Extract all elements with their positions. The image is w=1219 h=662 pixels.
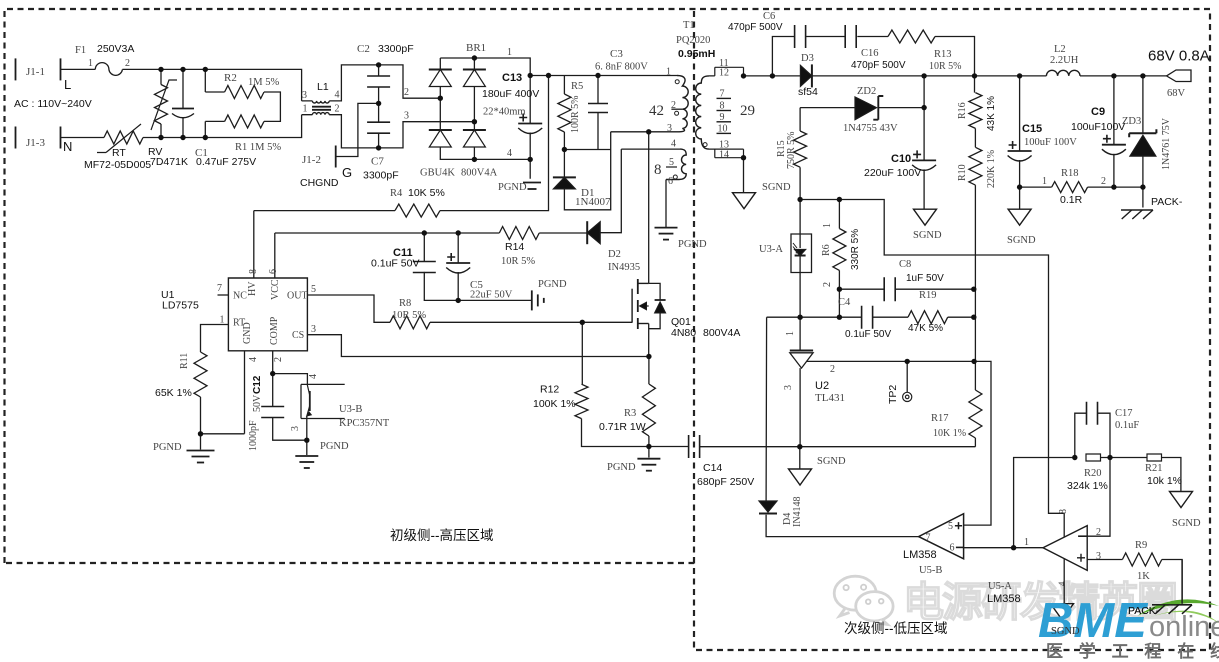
svg-text:2: 2 (830, 364, 835, 375)
svg-text:4: 4 (335, 90, 340, 101)
svg-text:GBU4K: GBU4K (420, 168, 455, 179)
svg-text:BR1: BR1 (466, 42, 486, 54)
svg-text:6: 6 (950, 543, 955, 554)
svg-text:22uF 50V: 22uF 50V (470, 290, 513, 301)
svg-text:7: 7 (926, 533, 931, 544)
svg-text:L2: L2 (1054, 44, 1066, 55)
svg-text:42: 42 (649, 103, 664, 119)
svg-text:2: 2 (404, 87, 409, 98)
svg-text:D3: D3 (801, 53, 814, 64)
svg-text:2: 2 (1096, 527, 1101, 538)
svg-text:C2: C2 (357, 43, 370, 55)
svg-text:7: 7 (217, 283, 222, 294)
svg-text:G: G (342, 165, 352, 180)
svg-text:R19: R19 (919, 290, 937, 301)
svg-text:U3-B: U3-B (339, 404, 362, 415)
svg-text:C6: C6 (763, 11, 775, 22)
svg-text:7: 7 (720, 88, 725, 99)
svg-text:1N4761 75V: 1N4761 75V (1161, 117, 1172, 170)
svg-text:C13: C13 (502, 72, 522, 84)
svg-text:2: 2 (273, 357, 284, 362)
svg-text:SGND: SGND (762, 182, 791, 193)
svg-text:R16: R16 (957, 102, 968, 119)
svg-text:1: 1 (507, 47, 512, 58)
svg-text:3300pF: 3300pF (378, 43, 414, 55)
svg-text:100uF 100V: 100uF 100V (1024, 137, 1077, 148)
svg-text:8: 8 (654, 162, 662, 178)
svg-text:sf54: sf54 (798, 86, 818, 98)
svg-text:R1 1M 5%: R1 1M 5% (235, 142, 281, 153)
svg-text:680pF 250V: 680pF 250V (697, 476, 754, 488)
svg-text:PQ2020: PQ2020 (676, 35, 710, 46)
svg-text:8: 8 (1058, 509, 1069, 514)
svg-text:IN4935: IN4935 (608, 262, 640, 273)
svg-text:4: 4 (248, 357, 259, 362)
svg-text:KPC357NT: KPC357NT (339, 418, 390, 429)
svg-text:3: 3 (1096, 551, 1101, 562)
svg-text:OUT: OUT (287, 291, 308, 302)
svg-text:1: 1 (785, 331, 796, 336)
svg-text:10: 10 (718, 123, 728, 134)
svg-text:HV: HV (247, 281, 258, 296)
svg-text:1N4007: 1N4007 (575, 196, 611, 208)
svg-text:4: 4 (1057, 581, 1067, 586)
svg-text:9: 9 (720, 112, 725, 123)
svg-text:1: 1 (822, 223, 833, 228)
svg-text:10k 1%: 10k 1% (1147, 475, 1182, 487)
svg-text:1uF 50V: 1uF 50V (906, 273, 944, 284)
svg-text:R18: R18 (1061, 168, 1079, 179)
svg-text:CS: CS (292, 330, 304, 341)
svg-text:4: 4 (507, 148, 512, 159)
svg-text:SGND: SGND (1051, 626, 1080, 637)
svg-text:330R 5%: 330R 5% (850, 229, 861, 270)
svg-text:6: 6 (268, 269, 279, 274)
svg-text:N: N (63, 139, 72, 154)
svg-text:C12: C12 (252, 375, 263, 394)
svg-text:U5-A: U5-A (988, 581, 1012, 592)
svg-text:1: 1 (303, 104, 308, 115)
svg-text:R13: R13 (934, 49, 952, 60)
svg-text:50V: 50V (252, 394, 263, 412)
svg-text:C8: C8 (899, 259, 911, 270)
svg-text:3: 3 (783, 385, 794, 390)
svg-text:324k 1%: 324k 1% (1067, 480, 1108, 492)
svg-text:1: 1 (1042, 176, 1047, 187)
svg-text:3: 3 (290, 426, 301, 431)
svg-text:68V: 68V (1167, 88, 1186, 99)
svg-text:1N4755 43V: 1N4755 43V (843, 123, 898, 134)
svg-text:10R 5%: 10R 5% (929, 61, 962, 72)
svg-text:R12: R12 (540, 384, 559, 396)
svg-text:U2: U2 (815, 380, 829, 392)
svg-text:2: 2 (822, 282, 833, 287)
svg-text:C16: C16 (861, 48, 879, 59)
svg-text:SGND: SGND (817, 456, 846, 467)
svg-text:D2: D2 (608, 249, 621, 260)
svg-text:10K 5%: 10K 5% (408, 187, 445, 199)
svg-text:1: 1 (220, 315, 225, 326)
svg-text:R10: R10 (957, 164, 968, 181)
svg-text:SGND: SGND (1007, 235, 1036, 246)
svg-text:GND: GND (242, 322, 253, 344)
svg-text:IN4148: IN4148 (792, 496, 803, 527)
svg-text:7D471K: 7D471K (150, 156, 188, 168)
svg-text:PGND: PGND (153, 442, 182, 453)
svg-text:4: 4 (671, 139, 676, 150)
svg-text:1000pF: 1000pF (248, 420, 259, 451)
svg-text:0.1R: 0.1R (1060, 194, 1083, 206)
svg-text:U3-A: U3-A (759, 244, 783, 255)
svg-text:C4: C4 (838, 297, 851, 308)
svg-text:R3: R3 (624, 408, 636, 419)
svg-text:初级侧--高压区域: 初级侧--高压区域 (390, 527, 494, 543)
svg-text:C10: C10 (891, 153, 911, 165)
svg-text:10K 1%: 10K 1% (933, 428, 966, 439)
svg-text:R14: R14 (505, 241, 524, 253)
svg-text:F1: F1 (75, 45, 86, 56)
svg-text:RT: RT (112, 147, 126, 159)
svg-text:470pF 500V: 470pF 500V (851, 60, 906, 71)
svg-text:22*40mm: 22*40mm (483, 107, 526, 118)
svg-text:0.1uF 50V: 0.1uF 50V (845, 329, 891, 340)
svg-text:MF72-05D005: MF72-05D005 (84, 159, 151, 171)
svg-text:SGND: SGND (913, 230, 942, 241)
svg-text:750R 5%: 750R 5% (786, 132, 797, 170)
svg-text:65K 1%: 65K 1% (155, 387, 192, 399)
svg-text:8: 8 (720, 101, 725, 112)
svg-text:NC: NC (233, 291, 247, 302)
svg-text:PACK-: PACK- (1151, 196, 1183, 208)
svg-text:800V4A: 800V4A (703, 327, 740, 339)
svg-text:R17: R17 (931, 413, 949, 424)
svg-text:4: 4 (308, 374, 319, 379)
svg-text:BME: BME (1038, 594, 1148, 648)
svg-text:R9: R9 (1135, 540, 1147, 551)
svg-text:1: 1 (666, 67, 671, 78)
svg-text:0.1uF: 0.1uF (1115, 420, 1139, 431)
svg-text:47K 5%: 47K 5% (908, 323, 943, 334)
svg-text:T1: T1 (683, 20, 695, 31)
svg-text:470pF 500V: 470pF 500V (728, 22, 783, 33)
svg-text:5: 5 (311, 284, 316, 295)
svg-text:6: 6 (668, 176, 673, 187)
svg-text:R11: R11 (179, 353, 190, 369)
svg-text:R4: R4 (390, 188, 403, 199)
svg-text:100uF100V: 100uF100V (1071, 121, 1125, 133)
svg-text:2: 2 (1101, 176, 1106, 187)
svg-text:220uF 100V: 220uF 100V (864, 167, 921, 179)
svg-text:10R 5%: 10R 5% (392, 310, 426, 321)
svg-text:5: 5 (948, 521, 953, 532)
svg-text:J1-2: J1-2 (302, 154, 321, 166)
svg-text:C14: C14 (703, 462, 722, 474)
svg-text:online: online (1149, 611, 1219, 643)
svg-text:3: 3 (311, 324, 316, 335)
svg-text:TP2: TP2 (887, 385, 899, 404)
svg-text:LD7575: LD7575 (162, 300, 199, 312)
svg-text:J1-1: J1-1 (26, 66, 45, 78)
svg-text:医学工程在线: 医学工程在线 (1046, 641, 1219, 661)
svg-text:PACK-: PACK- (1128, 605, 1160, 617)
svg-text:250V3A: 250V3A (97, 43, 134, 55)
svg-text:0.47uF 275V: 0.47uF 275V (196, 156, 256, 168)
svg-text:2.2UH: 2.2UH (1050, 55, 1079, 66)
svg-text:AC : 110V~240V: AC : 110V~240V (14, 98, 92, 110)
svg-text:12: 12 (719, 68, 729, 79)
svg-text:2: 2 (671, 100, 676, 111)
svg-text:2: 2 (125, 58, 130, 69)
svg-text:0.1uF 50V: 0.1uF 50V (371, 258, 419, 270)
svg-text:L: L (64, 77, 71, 92)
svg-text:29: 29 (740, 103, 755, 119)
svg-text:C3: C3 (610, 48, 623, 60)
svg-text:180uF 400V: 180uF 400V (482, 88, 539, 100)
svg-text:1: 1 (1024, 537, 1029, 548)
svg-text:0.71R 1W: 0.71R 1W (599, 421, 646, 433)
svg-text:43K 1%: 43K 1% (986, 96, 997, 131)
svg-text:R6: R6 (821, 244, 832, 256)
svg-text:次级侧--低压区域: 次级侧--低压区域 (844, 621, 948, 636)
svg-text:TL431: TL431 (815, 392, 845, 404)
svg-text:2: 2 (335, 104, 340, 115)
svg-text:R20: R20 (1084, 468, 1102, 479)
svg-text:800V4A: 800V4A (461, 168, 498, 179)
svg-text:1: 1 (88, 58, 93, 69)
svg-text:LM358: LM358 (903, 549, 937, 561)
svg-text:LM358: LM358 (987, 593, 1021, 605)
svg-text:C17: C17 (1115, 408, 1133, 419)
svg-text:U5-B: U5-B (919, 565, 942, 576)
svg-text:10R 5%: 10R 5% (501, 256, 535, 267)
svg-text:C9: C9 (1091, 106, 1105, 118)
svg-text:R2: R2 (224, 72, 237, 84)
svg-text:R8: R8 (399, 298, 411, 309)
svg-text:PGND: PGND (320, 441, 349, 452)
svg-text:3: 3 (667, 123, 672, 134)
svg-text:1M 5%: 1M 5% (248, 77, 279, 88)
svg-text:VCC: VCC (270, 279, 281, 300)
svg-text:COMP: COMP (269, 316, 280, 345)
svg-text:100R 5%: 100R 5% (570, 96, 581, 134)
svg-text:8: 8 (248, 269, 259, 274)
svg-text:220K 1%: 220K 1% (986, 150, 997, 188)
svg-text:PGND: PGND (498, 182, 527, 193)
svg-text:3: 3 (404, 111, 409, 122)
svg-text:C7: C7 (371, 156, 384, 168)
svg-text:ZD3: ZD3 (1122, 116, 1141, 127)
svg-text:14: 14 (719, 149, 729, 160)
svg-text:PGND: PGND (607, 462, 636, 473)
svg-text:3300pF: 3300pF (363, 170, 399, 182)
svg-text:R21: R21 (1145, 463, 1163, 474)
svg-text:ZD2: ZD2 (857, 86, 876, 97)
svg-text:J1-3: J1-3 (26, 137, 45, 149)
svg-text:CHGND: CHGND (300, 177, 339, 189)
svg-text:SGND: SGND (1172, 518, 1201, 529)
svg-text:0.95mH: 0.95mH (678, 48, 715, 60)
svg-text:L1: L1 (317, 81, 329, 93)
svg-text:PGND: PGND (678, 239, 707, 250)
svg-text:68V 0.8A: 68V 0.8A (1148, 48, 1210, 65)
svg-text:C15: C15 (1022, 123, 1042, 135)
svg-text:6. 8nF 800V: 6. 8nF 800V (595, 62, 648, 73)
svg-text:4N80: 4N80 (671, 327, 696, 339)
svg-text:100K 1%: 100K 1% (533, 398, 576, 410)
svg-text:PGND: PGND (538, 279, 567, 290)
svg-text:5: 5 (669, 157, 674, 168)
svg-text:R5: R5 (571, 81, 583, 92)
svg-text:1K: 1K (1137, 571, 1150, 582)
svg-text:3: 3 (302, 90, 307, 101)
